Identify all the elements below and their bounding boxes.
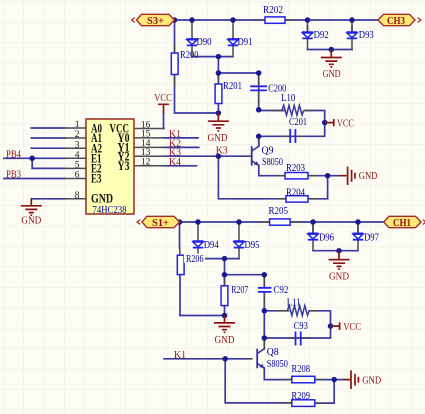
svg-text:3: 3 [75, 140, 80, 150]
svg-text:GND: GND [323, 69, 341, 80]
svg-text:Y3: Y3 [118, 159, 130, 173]
svg-text:L10: L10 [281, 93, 295, 104]
svg-text:R203: R203 [286, 163, 305, 174]
svg-text:D90: D90 [197, 37, 212, 48]
svg-text:CH3: CH3 [387, 16, 405, 27]
svg-text:S1+: S1+ [152, 218, 169, 229]
svg-text:D97: D97 [364, 232, 379, 243]
svg-text:D95: D95 [245, 240, 260, 251]
svg-text:L11: L11 [287, 298, 301, 309]
svg-text:GND: GND [362, 376, 381, 387]
svg-text:GND: GND [359, 171, 378, 182]
svg-text:R206: R206 [186, 254, 204, 265]
svg-text:GND: GND [91, 191, 113, 205]
svg-text:R207: R207 [231, 285, 248, 296]
svg-text:5: 5 [75, 161, 80, 171]
svg-text:R200: R200 [180, 50, 199, 61]
svg-text:VCC: VCC [154, 93, 172, 104]
svg-text:Q9: Q9 [262, 145, 274, 156]
svg-text:2: 2 [75, 130, 80, 140]
svg-text:K1: K1 [174, 350, 186, 361]
svg-text:4: 4 [75, 151, 80, 161]
svg-text:S3+: S3+ [147, 16, 164, 27]
svg-text:12: 12 [141, 158, 151, 168]
svg-text:R208: R208 [292, 364, 311, 375]
svg-text:D92: D92 [314, 30, 329, 41]
svg-text:C201: C201 [289, 117, 307, 128]
svg-text:74HC238: 74HC238 [93, 205, 127, 216]
svg-text:Q8: Q8 [267, 347, 279, 358]
svg-text:VCC: VCC [337, 118, 354, 129]
svg-text:C92: C92 [273, 285, 288, 296]
svg-text:CH1: CH1 [393, 218, 411, 229]
svg-text:E3: E3 [91, 172, 102, 186]
svg-text:S8050: S8050 [267, 359, 288, 370]
svg-text:GND: GND [208, 133, 228, 144]
svg-text:R209: R209 [292, 391, 311, 402]
svg-text:D94: D94 [204, 240, 219, 251]
svg-text:K4: K4 [169, 157, 181, 168]
svg-text:R205: R205 [269, 206, 289, 217]
svg-text:1: 1 [75, 120, 80, 130]
svg-text:R204: R204 [286, 188, 305, 199]
svg-text:GND: GND [329, 272, 349, 283]
svg-text:PB4: PB4 [6, 150, 21, 161]
svg-text:6: 6 [75, 171, 80, 181]
svg-text:8: 8 [75, 191, 80, 201]
svg-text:R202: R202 [263, 5, 283, 16]
svg-text:C93: C93 [294, 321, 308, 332]
svg-text:S8050: S8050 [262, 157, 283, 168]
svg-text:VCC: VCC [343, 322, 361, 333]
svg-text:D91: D91 [238, 37, 253, 48]
svg-text:15: 15 [141, 130, 151, 140]
svg-text:D93: D93 [359, 30, 374, 41]
svg-text:PB3: PB3 [6, 170, 21, 181]
svg-text:D96: D96 [319, 232, 334, 243]
svg-text:GND: GND [215, 335, 235, 346]
svg-text:GND: GND [21, 215, 41, 226]
svg-text:R201: R201 [223, 81, 242, 92]
svg-text:K3: K3 [216, 145, 228, 156]
